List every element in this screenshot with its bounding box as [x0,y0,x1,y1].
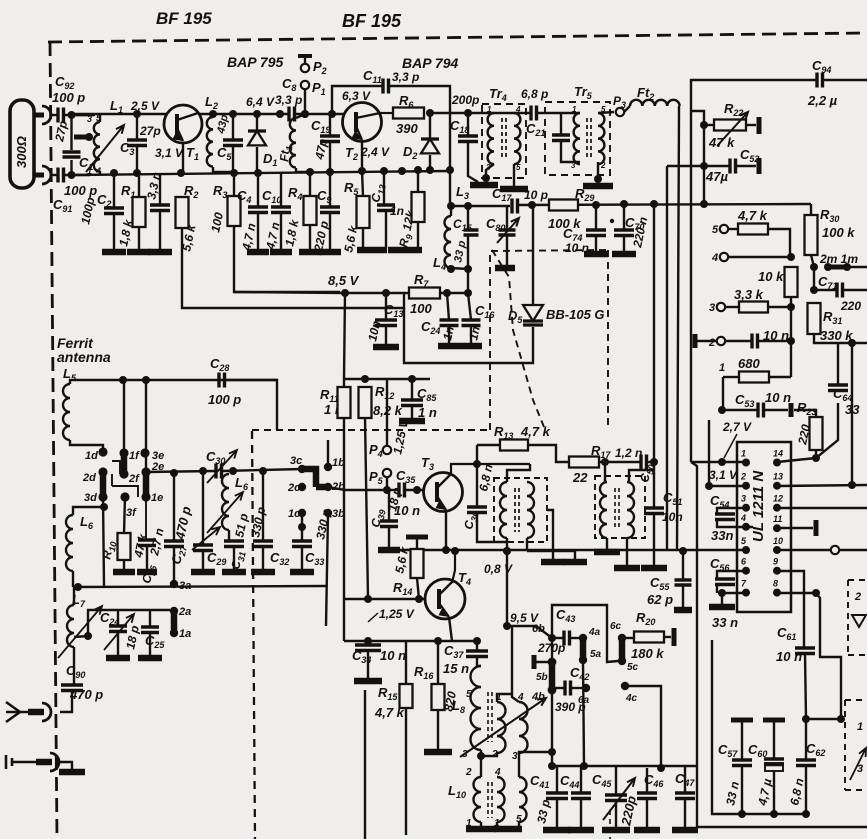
switch contact 3a [170,580,178,588]
capacitor C25 [141,627,159,633]
resistor R20 [634,632,664,643]
svg-text:BF 195: BF 195 [156,9,212,28]
IC pin 14 [773,459,781,467]
IC pin 10 [773,546,781,554]
wire R14 a [416,537,418,549]
dashed tuning slant [492,250,544,427]
inner dashed partition [252,431,255,839]
IC pin 5 [742,546,750,554]
ground C51 [641,565,667,572]
jumper stub [111,474,113,486]
trimmer arrow C80 [497,218,519,243]
core L9 b [491,692,493,742]
dashed module1 top [848,579,867,581]
node row3 [787,303,795,311]
IC pin 4 [742,523,750,531]
capacitor 3,3n [150,205,170,211]
capacitor C70 [614,230,634,236]
wire col146 [145,380,147,472]
wire R4 a [309,172,311,196]
wire 8,5V rail [234,292,409,293]
wire rail586 [73,586,326,587]
svg-text:BB-105 G: BB-105 G [546,307,605,322]
contact 5b node [548,658,557,667]
wire R17 a [528,445,569,462]
capacitor C13 [375,320,397,326]
ground Tr4-C18 [470,182,498,189]
contact 5c [618,657,626,665]
svg-text:3,1 V: 3,1 V [709,468,738,482]
bus 3,1V up [708,420,710,486]
resistor R17 [569,457,599,468]
svg-text:10: 10 [773,536,783,546]
resistor R31 [808,303,821,334]
wire C52 b [736,165,756,167]
terminal P4 [383,446,391,454]
stray junction mark [610,219,614,223]
svg-text:5a: 5a [590,649,602,660]
core IFT2 b [618,488,620,530]
wire C47 gnd stem [684,799,686,828]
node 766b [580,762,588,770]
inductor L3-L4 [445,216,451,268]
IF transformer 2 box [595,476,645,538]
switch contact 1a [170,629,178,637]
jack contact antenna [42,703,51,721]
capacitor C54 [715,514,735,520]
wire C53 a [722,409,758,411]
wire 0,8V col [506,551,508,626]
wire pin7 gnd stem [721,593,723,605]
dashed module2 left [844,700,846,790]
ground C24 [438,343,460,350]
node C49 out [650,458,658,466]
inductor L10 right [519,777,527,822]
terminal P5 [383,469,391,477]
capacitor C39 [380,521,398,527]
capacitor C20 in Tr5 [552,135,570,141]
capacitor C41 [546,793,568,799]
svg-text:1n: 1n [466,325,483,342]
wire R20 b [664,636,671,638]
wire C91 out [64,174,90,176]
wire C55 stem a [682,551,684,580]
svg-text:2,7 V: 2,7 V [722,420,752,434]
wire C54-pin4 [717,520,753,527]
wire row3-row2 [790,307,792,341]
svg-text:180 k: 180 k [631,646,664,661]
wire Tr5-P3 [598,112,614,113]
wire C24 gnd stem [448,326,450,344]
wire C3 stem [136,114,138,140]
switch contact 1e [141,492,150,501]
ground C25 [138,655,162,662]
node L5b [142,376,150,384]
wire D2 stem [429,113,431,139]
svg-text:15 n: 15 n [443,661,469,676]
capacitor C10 [271,207,291,213]
core IFT2 a [614,488,616,530]
wire D2 stem b [429,155,431,170]
wire R1 b [138,227,140,251]
resistor R6 [393,108,424,119]
node L2 [209,110,217,118]
svg-text:3a: 3a [179,580,191,592]
node Ft1 [301,110,309,118]
core IFT1 b [518,488,520,532]
terminal P2 [301,64,309,72]
wire T3 emitter [445,511,447,551]
node 719 [837,715,845,723]
wire rail551 [389,549,746,551]
wire pin3 [717,508,746,514]
switch contact 1d [98,447,107,456]
wire row2 c [758,340,791,342]
wire C11 loop [332,86,382,114]
wire L5 bot [70,440,103,449]
node 599a [364,595,372,603]
arrow module2 [850,748,866,780]
wire C42 b [571,687,586,689]
wire C1 b [70,160,72,175]
wire C41 gnd stem [556,799,558,828]
node osc1 [199,467,207,475]
pointer 1,25V [368,613,378,622]
wire C35 out [405,489,424,491]
inductor IFT1 secondary [527,482,534,538]
node IF1 [447,202,455,210]
wire tap L1 [80,136,89,138]
wire C10 gnd stem [280,213,282,251]
inductor L2 [207,117,213,167]
varactor second bar D5 [523,323,543,326]
node P5 [383,486,391,494]
wire C2 gnd stem [113,214,115,251]
svg-text:1d: 1d [85,450,98,462]
terminal row4 [720,253,728,261]
wire C9 stem [329,172,331,207]
wire C41 stem [556,766,558,793]
capacitor C12 [377,205,395,211]
svg-text:2: 2 [600,161,606,170]
svg-text:3c: 3c [290,455,302,467]
wire C20 a [560,113,562,135]
trimmer arrow C24b [104,614,134,650]
capacitor C55 [675,580,692,585]
wire R7 out [440,292,468,294]
wire C34 gnd stem [367,651,369,679]
wire T2 collector [380,112,393,114]
svg-text:2a: 2a [178,606,191,618]
ground C33 [290,569,314,576]
svg-text:5b: 5b [536,672,548,683]
wire D5 riser [532,205,534,305]
node 200p [464,109,472,117]
node T3 base [413,486,421,494]
ground IFT2 b [614,565,640,572]
switch contact 3f [120,492,129,501]
resistor R11 [338,387,351,418]
node A2 [68,171,76,179]
svg-text:10 n: 10 n [776,649,802,664]
wire C4 stem [257,173,259,207]
dashed gang link C45 [609,810,611,839]
wire C10 stem [280,173,282,207]
link 1f-2f [121,453,128,474]
node 641a [364,637,372,645]
inductor L10 left [474,777,481,822]
capacitor C1 trimmer [63,152,81,157]
contact 6a [582,684,590,692]
svg-text:4,7 k: 4,7 k [737,208,768,223]
svg-text:11: 11 [773,514,782,524]
wire pin10 [777,549,830,551]
wire IFT1 pri top [507,464,530,482]
node tap L1 [85,133,93,141]
capacitor C51 [644,508,664,514]
node C27 top [170,469,178,477]
wire C53 b [764,409,788,411]
wire P5 drop [386,477,388,490]
ground 3,3n [148,249,172,256]
svg-text:200p: 200p [451,93,479,107]
svg-text:8: 8 [773,579,778,589]
node A1 [68,111,76,119]
wire R20 a [622,637,634,639]
wire L1 stem a [99,115,101,122]
node C55 top [679,547,687,555]
node s1g [326,168,334,176]
svg-text:6,8 p: 6,8 p [521,87,548,101]
core Tr4 b [505,118,507,160]
svg-text:0,8 V: 0,8 V [484,562,513,576]
svg-text:1: 1 [857,721,863,733]
wire C45 gnd stem [615,801,617,828]
terminal pin10 [831,546,839,554]
switch contact 1f [119,448,128,457]
transistor T2 [343,103,382,142]
capacitor C30 trimmer [216,464,222,479]
link 6c-5c [619,638,626,661]
wire rail599 [344,598,425,600]
svg-text:2: 2 [854,591,861,603]
svg-text:4c: 4c [625,693,638,704]
wire R12 drop [365,418,368,599]
capacitor C24b trimmer [109,626,127,632]
contact 4c [621,682,629,690]
wire row3 a [725,306,739,308]
transformer Tr4 box [482,104,526,178]
wire C20 b [561,141,580,162]
wire C25 stem [149,610,151,627]
transistor T1 [164,105,202,143]
wire pin7 [722,592,747,594]
capacitor C35 [399,483,405,498]
svg-text:1c: 1c [288,508,300,520]
inductor Ft1 [290,118,296,168]
svg-text:100 p: 100 p [64,183,97,198]
jack contact top [42,106,51,124]
ground earth [59,769,85,776]
wire R15 drop [405,708,407,835]
dashed osc box bottom [252,429,490,431]
wire P2 stem [304,56,306,64]
trimmer arrow C29 [192,527,220,550]
link 4a-5a [580,638,587,660]
core IFT1 a [514,488,516,532]
antenna plug symbol [6,702,28,722]
outer dashed border left [50,42,57,839]
ground C46 [634,827,660,834]
wire C3 stem b [136,146,138,173]
ground C9 [319,249,341,256]
wire 3f-R10 [124,497,125,533]
node 641c [473,637,481,645]
wire R16 gnd stem [437,710,439,750]
ground C55 [674,607,692,614]
svg-text:3: 3 [87,114,92,124]
wire D5 loop [404,293,533,363]
inductor L9 mid [497,702,506,753]
wire R22 a [704,124,714,126]
contact 5a [579,656,587,664]
wire 3,3n stem [159,173,161,205]
node T3 coll [473,460,481,468]
svg-text:14: 14 [773,449,783,459]
svg-text:4: 4 [515,105,521,114]
wire C19 stem [329,114,331,136]
ground C24b [106,655,130,662]
link 2a-1a [171,611,178,633]
wire C39 stem [388,490,390,521]
svg-text:2,2 µ: 2,2 µ [807,93,838,108]
node s1e [254,169,262,177]
svg-text:330 k: 330 k [820,328,853,343]
wire C32 col [262,471,264,541]
inductor IFT2 secondary [627,482,634,538]
capacitor C52 [730,159,736,174]
wire 1c drop [301,513,303,541]
node s2f [446,166,454,174]
capacitor C53 [758,403,764,418]
ground C16 [460,343,482,350]
wire C18 stem [467,113,469,136]
IC pin 9 [773,567,781,575]
svg-text:10 p: 10 p [524,188,548,202]
capacitor C26 [138,540,156,546]
svg-text:UL 1211 N: UL 1211 N [750,470,767,542]
wire C4 gnd stem [257,213,259,251]
variable arrow L8 [460,698,546,757]
node IF2 [464,202,472,210]
wire T3 collector [451,464,530,474]
svg-text:390 p: 390 p [555,700,586,714]
wire IFT1 pri bot [506,538,508,551]
inductor IFT2 primary [600,482,607,538]
ground C32 [251,569,275,576]
variable arrow C45 [603,778,635,820]
wire 1m out [847,266,867,268]
wire col125 up [123,380,125,453]
wire rail766 [549,765,697,767]
wire R10 gnd stem [123,560,125,570]
resistor R3 [228,196,241,226]
dashed module2 top [845,699,867,701]
wire T1 emitter [182,143,184,173]
svg-text:2d: 2d [82,472,96,484]
wire R14 b [417,578,419,599]
wire L9 left bot [480,750,482,756]
svg-text:1 n: 1 n [418,405,437,420]
node 9,5V [503,622,511,630]
wire 680 a [723,376,739,378]
svg-text:62 p: 62 p [647,592,673,607]
wire IF rail a [450,205,510,207]
wire C9 gnd stem [329,213,331,251]
wire C15 stem b [467,235,469,293]
wire R3 a [233,173,235,196]
node R22 [700,121,708,129]
capacitor C45 variable [605,795,627,801]
IC pin 1 [742,459,750,467]
ground C29 [191,569,215,576]
wire x344 drop [343,550,345,641]
svg-text:2: 2 [708,337,715,349]
capacitor C32 [253,541,273,547]
wire L6osc bot [228,530,230,541]
capacitor C29 trimmer [193,545,213,551]
svg-text:BAP 795: BAP 795 [227,54,284,70]
terminal row3 [717,303,725,311]
node 551a [442,546,450,554]
wire C52 node drop [703,166,705,204]
pointer 2,7V [724,434,737,458]
jumper 2d-2f [112,461,120,474]
svg-text:220: 220 [840,299,861,313]
node 551b [503,547,511,555]
wire C71 a [814,289,836,291]
switch contact 1b [324,463,332,471]
node 2,7V pt [718,458,726,466]
antenna lug top [33,113,44,118]
wire C80 stem b [506,235,508,266]
node pin8 [812,589,820,597]
wire pin1 [691,461,746,463]
node s2c [398,167,406,175]
wire C11 right [389,86,450,170]
node 379b [408,375,416,383]
antenna plug pin [28,709,44,716]
wire C37 a [476,641,478,651]
terminal P3 [616,108,624,116]
wire C46 stem [646,768,648,793]
node L6 top [100,503,108,511]
node 1c mid [298,523,306,531]
wire 3d drop [103,497,104,586]
svg-text:22: 22 [572,470,588,485]
inductor IFT1 primary [500,482,507,538]
node x852a [848,339,856,347]
ground C44 [568,827,594,834]
ground C85 [399,418,425,425]
switch contact 3d [98,492,107,501]
wire rail490 [383,489,398,491]
capacitor C27 [164,541,184,547]
wire C60 b [773,771,775,814]
diode in module1 [852,615,866,627]
wire top rail b [199,113,288,115]
inductor Tr5 secondary [598,113,604,164]
